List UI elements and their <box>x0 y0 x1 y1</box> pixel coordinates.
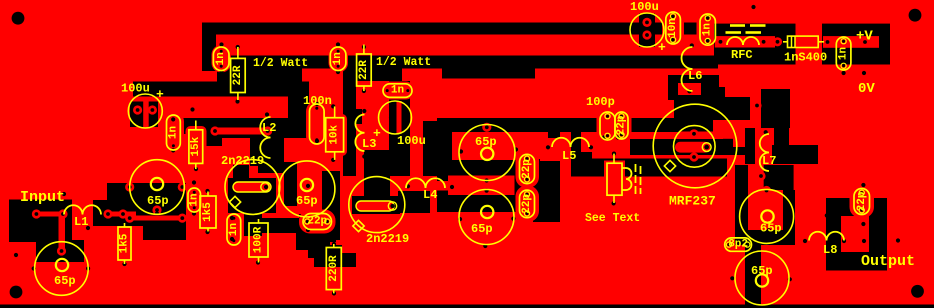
svg-text:22R: 22R <box>358 60 370 80</box>
capacitor C7 100n <box>310 104 325 144</box>
node hole 54 <box>511 217 515 221</box>
svg-text:Input: Input <box>20 189 65 206</box>
svg-text:1n: 1n <box>228 223 240 236</box>
node hole 72 <box>881 40 885 44</box>
transistor Q3 bar step <box>723 139 733 147</box>
node pad 24 <box>689 152 698 161</box>
capacitor C19 8p2 <box>725 238 752 251</box>
capacitor C8 1n <box>167 115 181 150</box>
wire Q2 step2 <box>308 245 342 258</box>
resistor R1 22R <box>237 47 239 58</box>
svg-text:Output: Output <box>861 253 915 270</box>
wire Q2 column <box>322 171 340 240</box>
transistor Q3 emitter mark <box>664 160 675 171</box>
inductor RFC core dashes <box>726 26 766 33</box>
node hole 4 <box>235 99 239 103</box>
svg-text:22p: 22p <box>521 194 533 214</box>
inductor L3 <box>355 115 364 152</box>
resistor R5 1k5 <box>207 192 209 197</box>
node hole 27 <box>205 230 209 234</box>
svg-text:100R: 100R <box>253 226 265 253</box>
wire C8 rail <box>167 118 309 134</box>
node hole 52 <box>514 147 518 151</box>
svg-text:1n: 1n <box>702 23 714 36</box>
node hole 30 <box>86 266 90 270</box>
wire VC6 frame bottom <box>748 230 795 245</box>
capacitor C12 22p <box>520 154 535 183</box>
svg-text:1/2 Watt: 1/2 Watt <box>376 56 431 69</box>
node pad 18 <box>759 37 768 46</box>
node hole 87 <box>483 244 487 248</box>
svg-text:L7: L7 <box>762 154 776 168</box>
wire input block right <box>93 200 140 226</box>
capacitor VC6 65p outline <box>740 189 794 243</box>
svg-text:100u: 100u <box>630 0 659 14</box>
svg-text:RFC: RFC <box>731 48 753 62</box>
svg-text:1n: 1n <box>215 52 227 65</box>
node hole 2 <box>219 70 223 74</box>
node hole 53 <box>458 217 462 221</box>
capacitor C7 clearance <box>306 101 328 148</box>
transistor Q3 collector bar <box>630 139 723 155</box>
node pad 26 <box>762 186 771 195</box>
inductor L8 <box>809 232 844 241</box>
capacitor C12 clearance <box>516 150 540 189</box>
resistor R2 22R <box>363 45 365 55</box>
node hole 24 <box>192 180 196 184</box>
resistor R3 15k <box>195 121 197 130</box>
node hole 38 <box>256 217 260 221</box>
resistor R3 clearance <box>186 126 207 167</box>
resistor R7 100R <box>258 219 260 223</box>
wire L6 pad notch <box>678 83 701 95</box>
node hole 41 <box>230 237 234 241</box>
wire L7 column top <box>761 89 790 128</box>
node hole 14 <box>331 104 335 108</box>
svg-text:65p: 65p <box>147 194 169 208</box>
node hole 3 <box>236 45 240 49</box>
node hole 45 <box>306 184 310 188</box>
svg-text:0V: 0V <box>858 81 875 97</box>
node hole 57 <box>612 201 616 205</box>
node hole 74 <box>751 5 755 9</box>
node hole 46 <box>375 181 379 185</box>
node pad 21 <box>860 37 869 46</box>
svg-text:22p: 22p <box>521 159 533 179</box>
node hole 40 <box>230 216 234 220</box>
diode D1 leads <box>783 41 788 43</box>
node pad 13 <box>133 105 142 114</box>
transistor Q3 inner <box>674 126 716 168</box>
wire see-text strip <box>571 132 581 176</box>
svg-text:MRF237: MRF237 <box>669 194 716 209</box>
capacitor C3 100u outline <box>630 13 664 47</box>
wire C8 rail step <box>202 134 222 146</box>
wire output ring2 <box>826 198 887 271</box>
svg-text:L5: L5 <box>562 149 576 163</box>
capacitor C17 clearance <box>697 11 720 49</box>
node pad 27 <box>752 101 761 110</box>
wire Q1 top-right bar <box>258 150 284 173</box>
svg-text:1n: 1n <box>838 47 850 60</box>
svg-text:10n: 10n <box>667 18 679 38</box>
wire VC2 patch <box>36 240 84 262</box>
node pad 8 <box>125 182 134 191</box>
node hole 71 <box>842 71 846 75</box>
capacitor VC3 rotor <box>301 179 313 191</box>
wire VC6 left column <box>735 165 748 245</box>
wire L7 channel lower <box>748 165 764 190</box>
capacitor VC3 65p outline <box>279 161 335 217</box>
svg-text:2n2219: 2n2219 <box>221 154 264 168</box>
svg-text:65p: 65p <box>751 264 773 278</box>
svg-text:8p2: 8p2 <box>728 239 748 251</box>
capacitor VC2 rotor <box>56 259 68 271</box>
node hole 28 <box>122 221 126 225</box>
node hole 47 <box>375 190 379 194</box>
node hole 42 <box>332 242 336 246</box>
inductor L2 <box>260 117 270 158</box>
wire VC3 left sliver <box>284 162 297 206</box>
capacitor VC1 65p outline <box>130 160 185 215</box>
wire 0V thick stub <box>442 69 535 79</box>
wire L7 column right sliver <box>774 128 789 150</box>
svg-text:1nS400: 1nS400 <box>784 51 827 65</box>
svg-text:10k: 10k <box>329 124 341 144</box>
node pad 14 <box>148 105 157 114</box>
node hole 73 <box>862 71 866 75</box>
svg-text:+: + <box>156 87 164 102</box>
node hole 84 <box>896 238 900 242</box>
capacitor C15 clearance <box>612 109 632 143</box>
node hole 12 <box>315 102 319 106</box>
wire left rail joint <box>202 23 216 72</box>
node hole 56 <box>485 189 489 193</box>
svg-text:1k5: 1k5 <box>119 233 131 253</box>
inductor L6 <box>682 47 693 91</box>
node hole 9 <box>362 89 366 93</box>
node pad 17 <box>716 37 725 46</box>
transistor Q3 bar ext <box>723 147 745 155</box>
node hole 59 <box>589 145 593 149</box>
diode D1 1n5400 body <box>788 36 819 47</box>
svg-text:100u: 100u <box>397 134 426 148</box>
node hole 32 <box>62 192 66 196</box>
node hole 8 <box>362 45 366 49</box>
node pad 15 <box>210 126 219 135</box>
transistor Q1 tab bar <box>228 178 276 213</box>
mounting hole top-right <box>909 9 922 22</box>
node pad 3 <box>32 209 41 218</box>
transistor Q1 emitter mark <box>229 196 240 207</box>
node pad 7 <box>57 246 66 255</box>
node hole 6 <box>336 42 340 46</box>
node hole 44 <box>306 228 310 232</box>
svg-text:22R: 22R <box>232 65 244 85</box>
wire L4 left patch <box>398 191 430 213</box>
capacitor VC4 rotor <box>481 148 493 160</box>
mounting hole bottom-right <box>911 285 924 298</box>
node hole 16 <box>362 109 366 113</box>
node hole 80 <box>803 239 807 243</box>
wire L5 notch <box>540 138 566 161</box>
svg-text:100n: 100n <box>303 94 332 108</box>
wire third bar junction <box>288 93 309 138</box>
capacitor C9 1n <box>188 188 201 212</box>
transistor Q2 emitter mark <box>353 220 364 231</box>
svg-text:L2: L2 <box>262 121 276 135</box>
svg-text:22p: 22p <box>856 191 868 211</box>
svg-text:1k5: 1k5 <box>202 202 214 222</box>
wire MRF blob extension <box>700 97 750 120</box>
wire Q2 step1 <box>296 232 330 250</box>
node hole 86 <box>861 222 865 226</box>
node hole 36 <box>243 194 247 198</box>
node +V channel red <box>823 36 879 48</box>
svg-text:65p: 65p <box>54 274 76 288</box>
node pad 25 <box>756 171 765 180</box>
wire column block <box>533 159 560 222</box>
node hole 82 <box>862 239 866 243</box>
node C2 gap <box>397 101 402 133</box>
resistor R8 220R <box>333 244 335 248</box>
inductor L1 <box>64 205 101 214</box>
wire RFC channel red <box>715 36 775 47</box>
node hole 20 <box>171 117 175 121</box>
inductor L5 <box>552 138 589 147</box>
capacitor C5 clearance <box>329 45 349 73</box>
wire VC4 frame left <box>437 132 452 161</box>
node hole 85 <box>861 183 865 187</box>
node hole 7 <box>336 70 340 74</box>
wire input block left <box>9 200 72 227</box>
node hole 67 <box>670 38 674 42</box>
capacitor C8 clearance <box>163 112 184 154</box>
capacitor VC1 rotor <box>151 178 163 190</box>
capacitor VC5 65p outline <box>459 190 514 245</box>
wire diode channel gap <box>796 24 824 65</box>
wire L3 vertical link <box>343 68 356 176</box>
wire L7 left piece <box>745 128 755 164</box>
node hole 63 <box>690 43 694 47</box>
capacitor C16 clearance <box>662 9 684 47</box>
wire input arm down <box>50 226 72 256</box>
capacitor C2 100u outline <box>379 101 412 134</box>
capacitor C18 1n <box>836 37 851 70</box>
node hole 22 <box>194 118 198 122</box>
wire MRF center column <box>677 85 713 132</box>
capacitor VC7 65p outline <box>735 251 789 305</box>
component X1 leads <box>613 154 615 164</box>
resistor R4 10k <box>334 106 336 117</box>
node hole 13 <box>315 139 319 143</box>
wire VC1 lower row <box>120 213 186 226</box>
svg-text:65p: 65p <box>471 222 493 236</box>
svg-text:100p: 100p <box>586 95 615 109</box>
node hole 29 <box>122 262 126 266</box>
node pad 6 <box>118 209 127 218</box>
capacitor C13 clearance <box>516 186 540 223</box>
node C3 block <box>639 14 655 48</box>
svg-text:220R: 220R <box>328 255 340 282</box>
wire Q2 step3 <box>314 253 356 267</box>
node hole 75 <box>735 213 739 217</box>
resistor R4 clearance <box>323 114 348 156</box>
capacitor C4 1n <box>213 47 229 71</box>
capacitor VC4 65p outline <box>459 125 515 181</box>
node hole 88 <box>155 211 159 215</box>
capacitor C18 clearance <box>833 34 855 74</box>
transistor Q2 tab bar <box>352 196 400 214</box>
capacitor VC5 rotor <box>481 206 493 218</box>
node hole 50 <box>450 185 454 189</box>
wire 0V-third chunk <box>217 69 302 84</box>
mounting hole top-left <box>12 12 25 25</box>
svg-text:1n: 1n <box>332 52 344 65</box>
capacitor C10 1n <box>227 214 241 245</box>
node hole 34 <box>14 253 18 257</box>
capacitor VC6 rotor <box>761 210 773 222</box>
inductor RFC coil <box>727 37 759 45</box>
wire top bar VC4-MRF <box>437 118 680 132</box>
node pad 10 <box>152 205 161 214</box>
node pad 12 <box>178 214 187 223</box>
wire see-text bar <box>571 159 727 177</box>
node hole 1 <box>219 42 223 46</box>
wire L3 link patch <box>345 109 362 124</box>
node hole 37 <box>256 202 260 206</box>
svg-text:22p: 22p <box>307 216 327 228</box>
svg-text:L6: L6 <box>688 69 702 83</box>
wire L2 lower patch <box>250 138 284 166</box>
wire Q1 column lower <box>244 196 262 236</box>
svg-text:65p: 65p <box>296 194 318 208</box>
transistor Q3 slot <box>675 142 710 153</box>
node hole 18 <box>389 116 393 120</box>
wire VC1 lower step <box>143 226 186 240</box>
svg-text:L3: L3 <box>362 137 376 151</box>
node hole 26 <box>205 189 209 193</box>
node hole 61 <box>616 135 620 139</box>
wire input trace 2 <box>105 212 136 217</box>
node pad 11 <box>125 214 134 223</box>
node hole 31 <box>32 266 36 270</box>
svg-text:L4: L4 <box>423 188 437 202</box>
capacitor C20 clearance <box>850 184 875 218</box>
svg-text:+: + <box>658 40 666 55</box>
wire +V top rail <box>202 23 697 35</box>
capacitor C11 22p <box>303 214 332 230</box>
capacitor C5 1n <box>330 47 346 71</box>
mounting hole bottom-left <box>10 286 23 299</box>
node hole 65 <box>764 130 768 134</box>
svg-text:L8: L8 <box>823 243 837 257</box>
node pad 2 <box>642 30 651 39</box>
node RFC block <box>714 24 796 65</box>
node hole 55 <box>485 178 489 182</box>
svg-text:15k: 15k <box>190 136 202 156</box>
node hole 49 <box>406 184 410 188</box>
wire L4 band <box>448 176 515 196</box>
node pad 19 <box>773 37 782 46</box>
component X1 clearance <box>604 161 625 198</box>
svg-text:1n: 1n <box>188 193 200 206</box>
wire Q2 feed column <box>364 150 390 201</box>
capacitor VC2 65p outline <box>35 242 89 296</box>
component X1 body <box>607 163 622 195</box>
inductor L4 <box>406 178 445 188</box>
wire C2 down link <box>423 121 452 176</box>
transistor Q3 slot pad <box>702 143 711 152</box>
board bottom edge strip <box>0 305 934 308</box>
node hole 17 <box>362 154 366 158</box>
node hole 62 <box>612 152 616 156</box>
capacitor C4 clearance <box>212 45 232 73</box>
svg-text:100u: 100u <box>121 82 150 96</box>
wire bias rail trace <box>213 128 268 135</box>
wire VC1 lower trace <box>126 216 183 221</box>
node hole 77 <box>767 228 771 232</box>
node C1 gap <box>143 102 149 128</box>
capacitor C6 1n <box>383 84 412 98</box>
wire VC1 row <box>107 183 186 213</box>
capacitor C1 100u outline <box>128 94 162 128</box>
capacitor C6 clearance <box>381 82 415 100</box>
node hole 48 <box>390 204 394 208</box>
node hole 79 <box>788 277 792 281</box>
wire 0V second rail <box>202 56 718 69</box>
transistor Q3 outline <box>653 104 737 188</box>
wire C11 block <box>299 214 336 242</box>
wire VC6 top right block <box>764 165 794 190</box>
wire ring2 window <box>841 216 869 252</box>
node hole 5 <box>190 107 194 111</box>
node hole 35 <box>264 185 268 189</box>
node hole 33 <box>86 226 90 230</box>
node hole 43 <box>332 291 336 295</box>
node L6 pad hole <box>687 89 691 93</box>
node hole 10 <box>265 112 269 116</box>
node pad 16 <box>263 126 272 135</box>
node hole 51 <box>459 149 463 153</box>
node pad 23 <box>689 129 698 138</box>
node hole 25 <box>192 211 196 215</box>
node hole 69 <box>706 38 710 42</box>
wire Q1 to C11 link <box>255 218 302 233</box>
node C1 clearance <box>130 102 158 128</box>
wire see-text block <box>571 152 592 176</box>
node hole 83 <box>881 239 885 243</box>
svg-text:2n2219: 2n2219 <box>366 232 409 246</box>
capacitor C14 clearance <box>597 109 619 144</box>
svg-text:65p: 65p <box>475 135 497 149</box>
node hole 60 <box>602 135 606 139</box>
wire L6 node blob <box>668 75 719 100</box>
wire column upper <box>548 132 560 159</box>
capacitor C14 100p <box>600 112 615 140</box>
node hole 78 <box>730 276 734 280</box>
capacitor C17 1n <box>700 14 715 45</box>
node pad 5 <box>103 209 112 218</box>
svg-text:1/2 Watt: 1/2 Watt <box>253 57 308 70</box>
capacitor C15 22p <box>615 112 628 139</box>
svg-text:1n: 1n <box>391 85 404 97</box>
svg-text:1n: 1n <box>167 126 179 139</box>
node C2 clearance <box>389 81 410 176</box>
capacitor VC7 rotor <box>756 274 768 286</box>
node hole 64 <box>687 89 691 93</box>
transistor Q1 slot <box>233 182 271 192</box>
